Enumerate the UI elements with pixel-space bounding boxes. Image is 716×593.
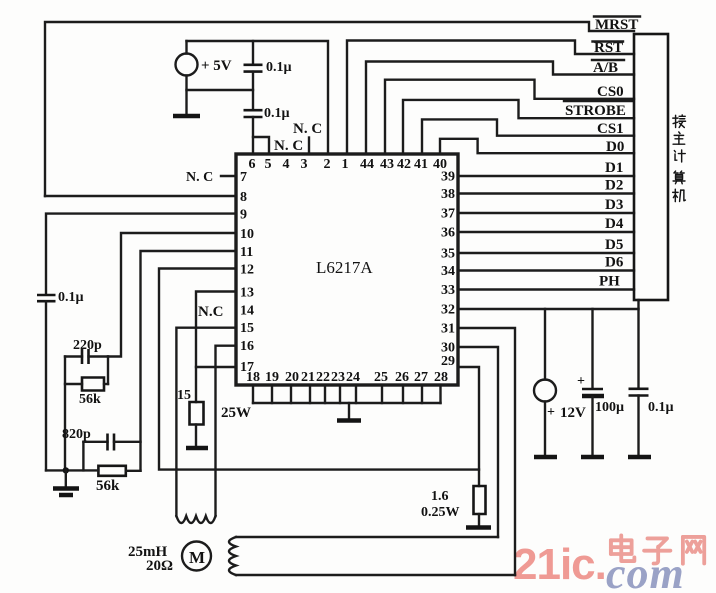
svg-text:1.6: 1.6 xyxy=(431,489,449,504)
wire pin 9 to left 0.1u cap xyxy=(46,214,236,294)
svg-text:43: 43 xyxy=(380,157,394,172)
power source +5V xyxy=(176,41,198,115)
svg-text:18: 18 xyxy=(246,370,260,385)
svg-text:20: 20 xyxy=(285,370,299,385)
wire pin 29 to 1.6 ohm resistor xyxy=(458,367,479,486)
capacitor C5 820p xyxy=(83,434,140,451)
svg-text:D1: D1 xyxy=(605,160,623,176)
svg-text:15: 15 xyxy=(177,388,191,403)
svg-text:24: 24 xyxy=(346,370,360,385)
capacitor C6 100u electrolytic xyxy=(582,309,604,456)
svg-text:25: 25 xyxy=(374,370,388,385)
ground symbol under 100u xyxy=(581,455,604,460)
svg-text:0.1µ: 0.1µ xyxy=(266,60,292,75)
svg-text:D0: D0 xyxy=(606,139,624,155)
wire D5 net from pin 35 xyxy=(458,252,634,254)
svg-text:8: 8 xyxy=(240,190,247,205)
wire D4 net from pin 36 xyxy=(458,231,634,233)
svg-text:220p: 220p xyxy=(73,338,102,353)
svg-text:27: 27 xyxy=(414,370,428,385)
wire +5V source bottom to capacitor chain xyxy=(187,89,254,91)
svg-text:+ 5V: + 5V xyxy=(201,58,232,74)
svg-text:13: 13 xyxy=(240,286,254,301)
capacitor C2 0.1u (lower, on pin 6 line) xyxy=(244,110,263,154)
svg-text:19: 19 xyxy=(265,370,279,385)
svg-text:+: + xyxy=(577,374,585,389)
svg-text:41: 41 xyxy=(414,157,428,172)
pin numbers right column xyxy=(441,170,455,370)
svg-text:3: 3 xyxy=(301,157,308,172)
svg-text:PH: PH xyxy=(599,274,620,290)
svg-text:22: 22 xyxy=(316,370,330,385)
svg-text:15: 15 xyxy=(240,321,254,336)
wire pin 10 down to 220p/56k network xyxy=(108,233,236,357)
label +12V xyxy=(547,405,586,421)
wire STROBE net from pin 42 xyxy=(403,100,634,154)
resistor R3 15 ohm 25W xyxy=(190,402,204,446)
svg-text:N. C: N. C xyxy=(293,121,322,137)
svg-text:M: M xyxy=(189,548,205,567)
svg-text:N. C: N. C xyxy=(274,138,303,154)
wire 820p left bracket xyxy=(82,442,84,471)
svg-text:21ic.: 21ic. xyxy=(513,540,606,589)
capacitor C7 0.1u right xyxy=(629,309,649,456)
svg-text:44: 44 xyxy=(360,157,374,172)
capacitor C3 0.1u left xyxy=(37,295,56,470)
resistor R1 56k xyxy=(65,378,108,391)
pin numbers top row xyxy=(249,157,448,172)
wire CS0 net from pin 43 xyxy=(385,80,634,154)
svg-text:4: 4 xyxy=(283,157,290,172)
svg-text:31: 31 xyxy=(441,322,455,337)
IC U1 L6217A body xyxy=(236,154,458,385)
svg-text:0.25W: 0.25W xyxy=(421,505,460,520)
svg-text:21: 21 xyxy=(301,370,315,385)
wire pin 30 down to motor loop top xyxy=(458,347,498,537)
svg-text:A/B: A/B xyxy=(593,60,618,76)
svg-text:35: 35 xyxy=(441,247,455,262)
wire pin 32 supply rail xyxy=(458,300,639,309)
label 接 (host computer note) xyxy=(673,115,686,128)
ground symbol under 12V xyxy=(534,455,557,460)
svg-text:10: 10 xyxy=(240,227,254,242)
ground symbol under bottom pins xyxy=(337,403,361,421)
svg-text:0.1µ: 0.1µ xyxy=(264,106,290,121)
label STROBE with overbar xyxy=(564,101,632,119)
svg-text:N. C: N. C xyxy=(186,170,213,185)
wire CS1 net from pin 41 xyxy=(422,119,634,154)
wire D0 net from pin 40 xyxy=(440,139,634,154)
svg-text:1: 1 xyxy=(342,157,349,172)
resistor R4 1.6 0.25W xyxy=(474,486,486,526)
svg-text:6: 6 xyxy=(249,157,256,172)
svg-text:38: 38 xyxy=(441,187,455,202)
svg-text:12V: 12V xyxy=(560,405,586,421)
wire D1 net from pin 39 xyxy=(458,175,634,177)
capacitor C1 0.1u (upper, on pin 6 line) xyxy=(244,41,263,109)
svg-text:D6: D6 xyxy=(605,255,624,271)
label 主 (host computer note) xyxy=(673,132,685,144)
svg-text:56k: 56k xyxy=(96,478,120,494)
label N.C pin 7 with stub xyxy=(186,170,236,185)
watermark 21ic.com logo xyxy=(513,535,704,593)
resistor R2 56k xyxy=(98,466,140,476)
bottom pin stubs bus of IC xyxy=(253,385,441,403)
svg-text:CS1: CS1 xyxy=(597,121,624,137)
pin numbers bottom row xyxy=(246,370,448,385)
ground symbol under 1.6 ohm xyxy=(466,525,491,530)
svg-text:39: 39 xyxy=(441,170,455,185)
host computer interface box xyxy=(634,34,668,300)
svg-text:820p: 820p xyxy=(62,427,91,442)
wire 220p/56k right bracket xyxy=(107,357,109,385)
label RST with overbar xyxy=(593,40,624,56)
wire PH net from pin 33 xyxy=(458,288,634,290)
svg-text:34: 34 xyxy=(441,264,455,279)
svg-text:100µ: 100µ xyxy=(595,400,624,415)
svg-text:12: 12 xyxy=(240,263,254,278)
wire pin 5 tie to cap line xyxy=(253,137,269,154)
svg-text:26: 26 xyxy=(395,370,409,385)
svg-text:STROBE: STROBE xyxy=(565,103,626,119)
motor M xyxy=(182,542,211,571)
svg-text:28: 28 xyxy=(434,370,448,385)
svg-text:36: 36 xyxy=(441,226,455,241)
wire pin 11 down to 820p/56k network xyxy=(141,251,237,471)
label MRST with overbar xyxy=(594,17,640,34)
wire motor loop bottom edge xyxy=(236,574,515,576)
label 计 (host computer note) xyxy=(674,150,685,162)
inductor motor winding vertical (loop left end) xyxy=(229,537,236,575)
wire D2 net from pin 38 xyxy=(458,192,634,194)
svg-text:D2: D2 xyxy=(605,178,623,194)
label A/B with overbar xyxy=(592,60,624,76)
wire D3 net from pin 37 xyxy=(458,212,634,214)
wire D6 net from pin 34 xyxy=(458,269,634,271)
svg-text:9: 9 xyxy=(240,208,247,223)
svg-text:23: 23 xyxy=(331,370,345,385)
junction node on ground line xyxy=(63,467,69,473)
svg-text:D3: D3 xyxy=(605,197,623,213)
label N.C pin 4 with tick xyxy=(274,138,309,155)
svg-text:7: 7 xyxy=(240,170,247,185)
svg-text:L6217A: L6217A xyxy=(316,258,373,277)
svg-text:MRST: MRST xyxy=(595,17,638,33)
pin numbers left column xyxy=(240,170,254,375)
inductor motor winding horizontal xyxy=(176,516,215,523)
svg-text:N.C: N.C xyxy=(198,304,223,320)
svg-text:0.1µ: 0.1µ xyxy=(58,290,84,305)
svg-text:25W: 25W xyxy=(221,405,251,421)
svg-text:42: 42 xyxy=(397,157,411,172)
ground for +5V source xyxy=(173,114,200,119)
power source +12V xyxy=(534,309,556,456)
svg-text:20Ω: 20Ω xyxy=(146,558,173,574)
svg-text:5: 5 xyxy=(265,157,272,172)
ground symbol left xyxy=(53,470,79,495)
svg-text:16: 16 xyxy=(240,339,254,354)
wire pin 15 down to motor winding xyxy=(176,328,236,516)
wire pin 31 down to motor loop bottom xyxy=(458,328,515,575)
wire pin 12 down and across to 1.6 ohm resistor xyxy=(159,269,479,470)
svg-text:33: 33 xyxy=(441,283,455,298)
ground symbol under 0.1u right xyxy=(628,455,651,460)
wire 220p/56k left bracket down to ground line xyxy=(64,357,66,471)
svg-text:CS0: CS0 xyxy=(597,84,624,100)
wire RST net from pin 1 xyxy=(347,41,634,155)
wire left ground line xyxy=(46,469,98,471)
ground symbol under 15 ohm xyxy=(186,446,208,451)
svg-text:29: 29 xyxy=(441,354,455,369)
svg-text:11: 11 xyxy=(240,245,253,260)
watermark 电子网 glyphs xyxy=(611,535,634,561)
svg-text:37: 37 xyxy=(441,207,455,222)
svg-text:14: 14 xyxy=(240,304,254,319)
label 机 (host computer note) xyxy=(673,189,686,201)
svg-text:0.1µ: 0.1µ xyxy=(648,400,674,415)
wire +5V rail to pin 2 xyxy=(187,41,329,154)
svg-text:D5: D5 xyxy=(605,237,623,253)
capacitor C4 220p xyxy=(65,349,108,364)
wire motor loop top edge xyxy=(236,536,498,538)
wire MRST net: top frame from pin 8 xyxy=(45,22,634,196)
svg-text:56k: 56k xyxy=(79,392,101,407)
wire A/B net from pin 44 xyxy=(366,62,634,155)
wire pin 16 down to motor winding xyxy=(216,346,237,516)
svg-text:D4: D4 xyxy=(605,216,624,232)
svg-text:+: + xyxy=(547,405,555,420)
svg-text:2: 2 xyxy=(324,157,331,172)
wire pin 13 / pin 17 tie down to 15 ohm resistor xyxy=(196,292,236,403)
svg-text:32: 32 xyxy=(441,303,455,318)
label 算 (host computer note) xyxy=(673,171,685,184)
